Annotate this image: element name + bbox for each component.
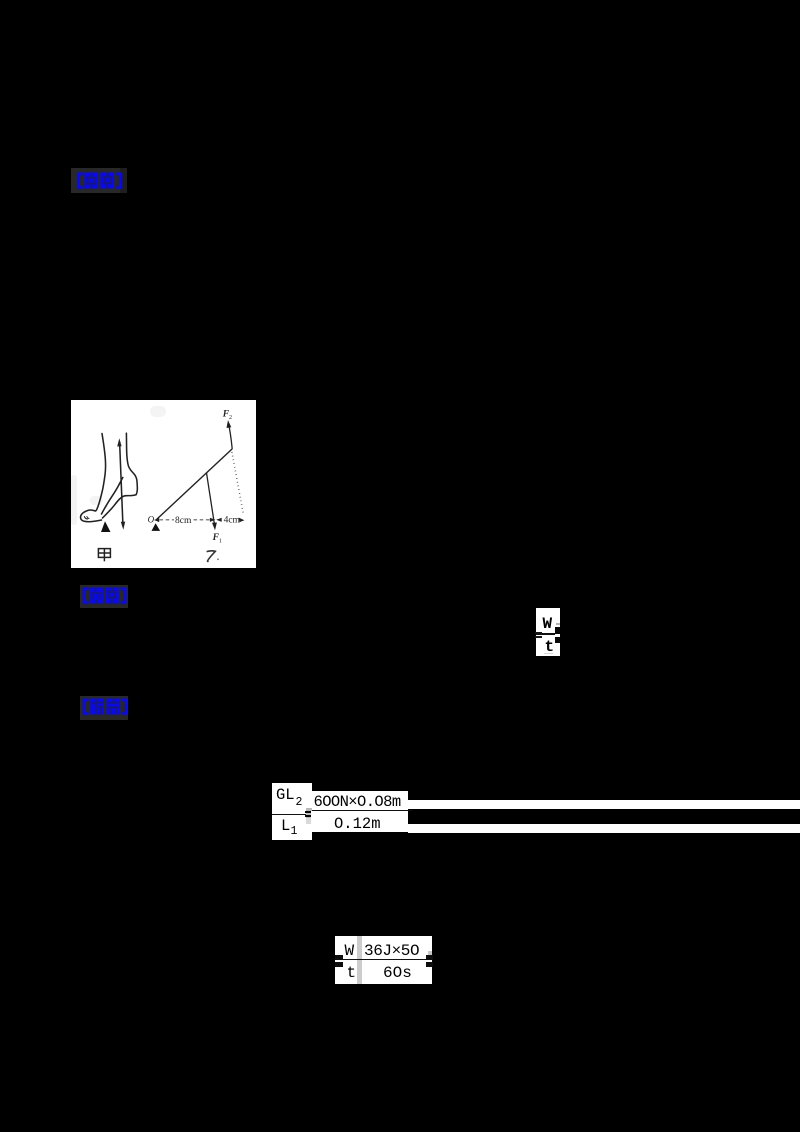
lever: end arrowhead [239,517,245,522]
gray chip top right [428,951,433,955]
lever: F2 arrowhead [227,420,232,428]
label explanation 【解答】 blue glyph blob [82,698,128,715]
foot: front shin line down to toe [95,433,105,510]
label analysis 【分析】 blue glyph blob [82,587,127,604]
svg-text:4cm: 4cm [224,515,241,525]
lever: start arrowhead at O [154,517,159,521]
lever: fulcrum triangle [152,523,161,531]
lever: right arrowhead mid [210,517,216,521]
foot: toe bump and toe tip [81,510,102,522]
fraction bar [335,959,428,961]
gray separator band [357,936,362,984]
foot: instep line [102,477,123,514]
foot: up arrowhead [117,438,121,446]
label answer 【答案】 blue glyph blob [76,172,123,189]
label jia 甲 [98,548,110,561]
lever: F1 down arrowhead [212,522,217,530]
label yi 乙 (looks like 7.) [207,550,216,561]
svg-text:O: O [148,514,155,524]
foot: down arrowhead [121,521,125,529]
label explanation 【解答】 highlight box [80,696,128,720]
lever: F1 line from lever down through baseline [207,472,215,525]
lever: F2 arrow segment [228,423,232,448]
equals at right edge [426,955,433,960]
svg-text:1: 1 [219,538,222,544]
foot: toenail [84,516,87,518]
white strip right of denominator [408,824,800,833]
lever: dashed measure line 8cm segment [160,518,175,520]
faint equals left of W/t image [535,632,542,634]
lever: left arrowhead mid [216,517,222,521]
svg-text:8cm: 8cm [175,516,192,526]
lever: dotted line from bend to baseline [232,452,244,515]
label analysis 【分析】 highlight box [80,585,128,609]
faint gray underline below t [544,653,553,655]
figure image (foot on tiptoe + lever diagram), white photo box [71,400,256,568]
equals at left edge [335,955,343,960]
svg-text:2: 2 [229,415,232,421]
lever: lever bar from O to bend [157,448,233,519]
label answer 【答案】 highlight box [71,168,120,193]
equals sign overlapping right edge of W/t image [555,627,561,634]
equals sign on gray chip [306,808,313,821]
formula image W/t = 36Jx50/60s on white [335,936,432,984]
foot: back leg line, ankle, heel [126,433,137,495]
fraction bar [312,810,412,812]
formula image W/t (fraction on white) [536,608,560,656]
foot: sole line from heel to toe [103,494,137,517]
formula image GL2/L1 (left fraction on white) [272,783,312,840]
formula numerator 600N x 0.08m on white [312,791,408,810]
formula denominator 0.12m on white [311,811,408,832]
foot: force arrow line (up and down) [120,442,123,525]
white strip right of numerator [408,800,800,809]
foot: fulcrum triangle [101,521,111,532]
